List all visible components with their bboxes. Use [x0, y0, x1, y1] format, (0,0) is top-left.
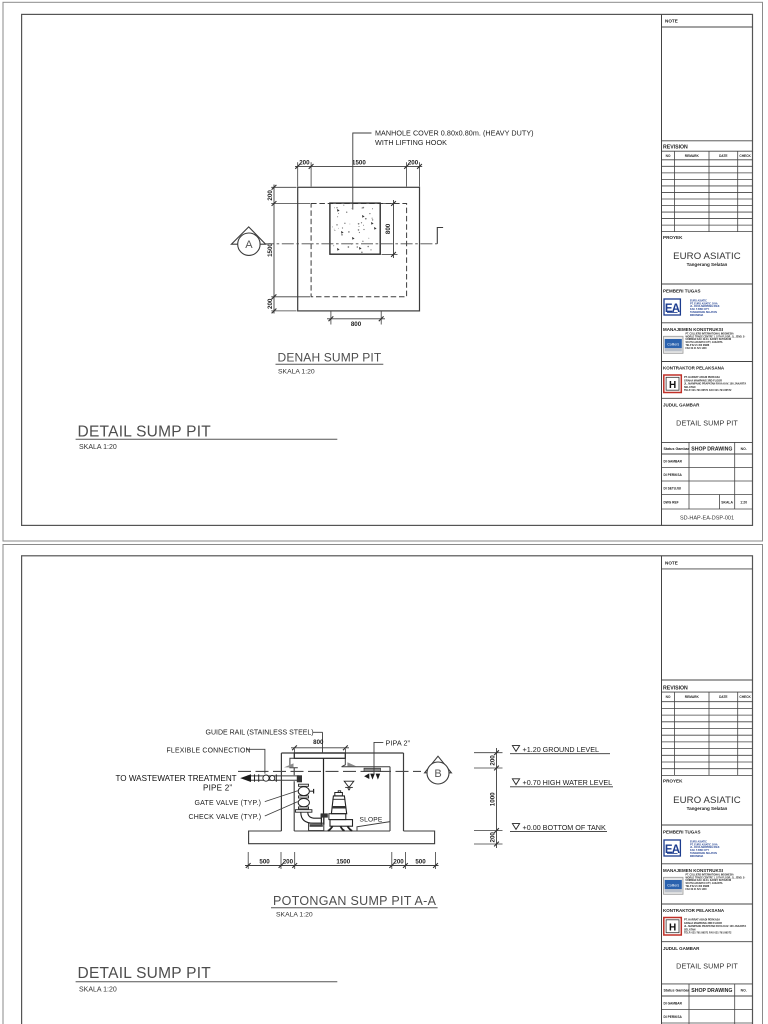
status gambar table [662, 995, 753, 997]
svg-text:SOUTH JAKARTA CITY, JAKARTA: SOUTH JAKARTA CITY, JAKARTA [686, 882, 723, 885]
svg-text:WORLD TRADE CENTRE 1, 10TH FLO: WORLD TRADE CENTRE 1, 10TH FLOOR, JL. JE… [686, 876, 746, 879]
800 dimension above cover (section) [291, 747, 349, 749]
guide rail [323, 758, 325, 816]
REVISION label [662, 691, 753, 693]
svg-text:EA: EA [665, 303, 680, 315]
left cover seat step [290, 758, 298, 768]
floor slope wedge [357, 822, 390, 831]
right vertical dimension extensions [474, 752, 503, 754]
manhole cover square [330, 203, 380, 254]
guide rail leader line [322, 732, 324, 753]
svg-text:PROYEK: PROYEK [663, 235, 683, 240]
svg-text:CHECK VALVE (TYP.): CHECK VALVE (TYP.) [189, 814, 262, 821]
svg-text:PEMBERI TUGAS: PEMBERI TUGAS [663, 830, 701, 835]
plan left dimension line [273, 185, 275, 314]
sheet 1 inner border [22, 14, 753, 525]
section marker A circle [238, 233, 260, 255]
svg-text:TELP. 021-791 86571 FAX 021-79: TELP. 021-791 86571 FAX 021-791 86572 [684, 932, 732, 935]
svg-text:REMARK: REMARK [685, 154, 700, 158]
MANAJEMEN KONSTRUKSI section [662, 903, 753, 905]
submersible pump cap [335, 793, 343, 796]
svg-text:H: H [669, 380, 676, 391]
svg-text:H: H [669, 922, 676, 933]
KONTRAKTOR PELAKSANA section [662, 397, 753, 399]
svg-text:PT. COLLIERS INTERNATIONAL IND: PT. COLLIERS INTERNATIONAL INDONESIA [686, 873, 734, 876]
manhole cover leader line [353, 133, 372, 210]
svg-text:REMARK: REMARK [685, 695, 700, 699]
right cover seat step [342, 758, 346, 766]
svg-text:GUIDE RAIL (STAINLESS STEEL): GUIDE RAIL (STAINLESS STEEL) [206, 730, 314, 737]
bottom of tank level mark [512, 824, 519, 830]
svg-text:NO: NO [666, 695, 671, 699]
section bottom dimension line [245, 865, 439, 867]
plan centerline [262, 243, 437, 245]
svg-text:A: A [245, 239, 253, 251]
KONTRAKTOR PELAKSANA section [662, 941, 753, 943]
REVISION label [662, 150, 753, 152]
right vertical dimension line [496, 748, 498, 848]
revision table header row [662, 159, 753, 161]
svg-text:B: B [434, 768, 441, 780]
svg-text:DETAIL SUMP PIT: DETAIL SUMP PIT [78, 965, 212, 982]
svg-text:INDONESIA: INDONESIA [690, 855, 704, 858]
right wall outer line [403, 753, 405, 831]
svg-text:1500: 1500 [336, 858, 350, 865]
gate valve leader [265, 791, 298, 802]
left seat wedge [284, 763, 294, 767]
check valve leader [265, 802, 298, 816]
plan inner tank dashed square [311, 204, 407, 297]
svg-text:TELP 62 21 300 36888: TELP 62 21 300 36888 [686, 886, 710, 888]
svg-text:KONTRAKTOR PELAKSANA: KONTRAKTOR PELAKSANA [663, 366, 725, 371]
svg-text:PIPE 2”: PIPE 2” [203, 784, 232, 793]
svg-text:FAX 62 21 521 1400: FAX 62 21 521 1400 [686, 347, 708, 350]
elbow flange bars [320, 814, 322, 824]
flexible coupling [263, 775, 269, 781]
svg-text:UDIRMAN KAV. 29-31, KARET, SET: UDIRMAN KAV. 29-31, KARET, SETIABUDI [686, 879, 732, 882]
revision table column lines [674, 151, 676, 231]
revision table rows [662, 707, 753, 709]
gate valve body [298, 787, 309, 796]
svg-text:DI GAMBAR: DI GAMBAR [664, 460, 683, 464]
svg-text:800: 800 [385, 223, 392, 234]
svg-text:+0.70 HIGH WATER LEVEL: +0.70 HIGH WATER LEVEL [523, 778, 613, 787]
svg-text:FAX 62 21 521 1400: FAX 62 21 521 1400 [686, 888, 708, 891]
JUDUL GAMBAR section [662, 983, 753, 985]
valve base plate [296, 810, 312, 813]
discharge elbow at wall [297, 775, 302, 782]
plan bottom 800 dimension [327, 318, 385, 320]
svg-text:SHOP DRAWING: SHOP DRAWING [691, 988, 732, 994]
svg-text:DI GAMBAR: DI GAMBAR [664, 1002, 683, 1006]
pump collar [329, 814, 346, 820]
MANAJEMEN KONSTRUKSI section [662, 361, 753, 363]
svg-text:EA: EA [665, 844, 680, 856]
svg-text:TELP 62 21 300 36888: TELP 62 21 300 36888 [686, 345, 710, 347]
svg-text:REVISION: REVISION [663, 144, 688, 150]
high water level mark [512, 779, 519, 785]
plan outer wall square [298, 187, 420, 311]
NOTE box bottom line [662, 140, 753, 142]
svg-text:DENAH SUMP PIT: DENAH SUMP PIT [278, 351, 382, 365]
tank interior floor line [294, 830, 390, 832]
title block frame [661, 14, 663, 525]
svg-text:MANAJEMEN KONSTRUKSI: MANAJEMEN KONSTRUKSI [663, 327, 723, 332]
svg-text:200: 200 [267, 190, 274, 201]
submersible pump knob [338, 791, 341, 793]
svg-text:1500: 1500 [352, 160, 366, 167]
section marker B circle [427, 762, 449, 784]
svg-text:SKALA 1:20: SKALA 1:20 [278, 369, 315, 376]
svg-text:MANHOLE COVER 0.80x0.80m. (HEA: MANHOLE COVER 0.80x0.80m. (HEAVY DUTY) [375, 128, 534, 137]
svg-text:+1.20 GROUND LEVEL: +1.20 GROUND LEVEL [523, 745, 600, 754]
gate valve handle H [310, 790, 314, 792]
svg-text:CHECK: CHECK [739, 154, 751, 158]
svg-text:UDIRMAN KAV. 29-31, KARET, SET: UDIRMAN KAV. 29-31, KARET, SETIABUDI [686, 338, 732, 341]
svg-text:SKALA 1:20: SKALA 1:20 [79, 986, 117, 993]
svg-text:1:20: 1:20 [740, 501, 747, 505]
NOTE box bottom line [662, 679, 753, 681]
right wall inner line [389, 767, 391, 831]
PEMBERI TUGAS section [662, 322, 753, 324]
svg-text:POTONGAN SUMP PIT A-A: POTONGAN SUMP PIT A-A [273, 894, 437, 908]
svg-text:200: 200 [299, 160, 310, 167]
svg-text:GATE VALVE (TYP.): GATE VALVE (TYP.) [195, 800, 262, 807]
svg-text:1000: 1000 [489, 792, 496, 806]
PIPA 2 leader [374, 742, 383, 774]
pump legs [328, 826, 333, 831]
svg-text:PEMBERI TUGAS: PEMBERI TUGAS [663, 289, 701, 294]
svg-text:TO WASTEWATER TREATMENT: TO WASTEWATER TREATMENT [116, 774, 237, 783]
svg-text:DI SETUJUI: DI SETUJUI [664, 487, 682, 491]
svg-text:PT. COLLIERS INTERNATIONAL IND: PT. COLLIERS INTERNATIONAL INDONESIA [686, 332, 734, 335]
svg-text:SKALA 1:20: SKALA 1:20 [276, 912, 313, 919]
svg-text:SLOPE: SLOPE [360, 816, 383, 823]
ground dashed line [238, 770, 421, 772]
svg-text:DETAIL SUMP PIT: DETAIL SUMP PIT [676, 418, 738, 427]
section marker A triangle [231, 227, 265, 244]
svg-text:Colliers: Colliers [667, 883, 679, 887]
svg-text:DI PERIKSA: DI PERIKSA [664, 1015, 683, 1019]
base slab [249, 831, 435, 844]
svg-text:TELP. 021-791 86571 FAX 021-79: TELP. 021-791 86571 FAX 021-791 86572 [684, 389, 732, 392]
svg-text:EURO ASIATIC: EURO ASIATIC [673, 795, 741, 806]
pump plinth [309, 823, 324, 830]
Hansae H logo [664, 918, 682, 936]
svg-text:PIPA 2”: PIPA 2” [386, 738, 411, 747]
submersible pump body [331, 796, 346, 814]
NOTE header box [662, 568, 753, 570]
svg-text:200: 200 [408, 160, 419, 167]
svg-text:1500: 1500 [267, 243, 274, 257]
plan right 800 dimension (cover height) [393, 200, 395, 258]
svg-text:200: 200 [393, 858, 404, 865]
pump volute [330, 820, 353, 827]
svg-text:CHECK: CHECK [739, 695, 751, 699]
svg-text:JUDUL GAMBAR: JUDUL GAMBAR [663, 946, 700, 951]
left wall inner line [293, 768, 295, 775]
svg-text:200: 200 [283, 858, 294, 865]
section bottom dimension extensions [247, 852, 249, 869]
tank top slab line [281, 752, 403, 754]
plan top dimension line [295, 165, 422, 167]
svg-text:REVISION: REVISION [663, 685, 688, 691]
svg-text:JUDUL GAMBAR: JUDUL GAMBAR [663, 403, 700, 408]
svg-text:MANAJEMEN KONSTRUKSI: MANAJEMEN KONSTRUKSI [663, 868, 723, 873]
svg-text:200: 200 [489, 832, 496, 843]
PROYEK section [662, 283, 753, 285]
svg-text:WITH LIFTING HOOK: WITH LIFTING HOOK [375, 138, 447, 147]
svg-text:PROYEK: PROYEK [663, 779, 683, 784]
left wall outer line [280, 753, 282, 831]
svg-text:DETAIL SUMP PIT: DETAIL SUMP PIT [676, 962, 738, 971]
arrow to wastewater treatment [240, 774, 251, 782]
NOTE header box [662, 26, 753, 28]
svg-text:WORLD TRADE CENTRE 1, 10TH FLO: WORLD TRADE CENTRE 1, 10TH FLOOR, JL. JE… [686, 335, 746, 338]
status table verticals [688, 442, 690, 509]
svg-text:NOTE: NOTE [665, 19, 678, 24]
valve stack flange 3 [299, 807, 309, 809]
pipe stub bracket at right of plan [437, 228, 443, 244]
status table verticals [688, 984, 690, 1024]
sheet 1 outer border [3, 2, 763, 541]
guide rail clamp [321, 813, 328, 817]
svg-text:NO.: NO. [741, 447, 747, 451]
svg-text:Colliers: Colliers [667, 342, 679, 346]
svg-text:DWG REF: DWG REF [664, 501, 679, 505]
EA logo [664, 299, 680, 315]
svg-text:SKALA: SKALA [721, 501, 733, 505]
title block frame [661, 556, 663, 1024]
discharge pipe through wall [248, 775, 300, 777]
revision table column lines [674, 692, 676, 775]
svg-text:Status Gambar: Status Gambar [664, 988, 690, 992]
ground level mark [512, 746, 519, 752]
svg-text:800: 800 [313, 739, 324, 746]
svg-text:KONTRAKTOR PELAKSANA: KONTRAKTOR PELAKSANA [663, 908, 725, 913]
top slab underside line [342, 766, 390, 768]
revision table rows [662, 165, 753, 167]
svg-text:200: 200 [489, 755, 496, 766]
right seat wedge [347, 762, 356, 766]
svg-text:NOTE: NOTE [665, 560, 678, 565]
svg-text:SKALA 1:20: SKALA 1:20 [79, 444, 117, 451]
svg-text:DETAIL SUMP PIT: DETAIL SUMP PIT [78, 424, 212, 441]
svg-text:500: 500 [415, 858, 426, 865]
Colliers logo [664, 336, 684, 353]
svg-text:NO.: NO. [741, 988, 747, 992]
svg-text:500: 500 [259, 858, 270, 865]
sheet 2 inner border [22, 556, 753, 1024]
svg-text:NO: NO [666, 154, 671, 158]
svg-text:Tangerang Selatan: Tangerang Selatan [687, 806, 728, 811]
Hansae H logo [664, 375, 682, 393]
check valve body [298, 799, 309, 807]
manhole cover stipple [332, 205, 373, 253]
svg-text:+0.00 BOTTOM OF TANK: +0.00 BOTTOM OF TANK [523, 823, 606, 832]
JUDUL GAMBAR section [662, 441, 753, 443]
status gambar table [662, 453, 753, 455]
valve stack flange 1 [299, 784, 309, 786]
svg-text:SOUTH JAKARTA CITY, JAKARTA: SOUTH JAKARTA CITY, JAKARTA [686, 341, 723, 344]
manhole cover plate (section) [294, 753, 345, 758]
svg-text:DATE: DATE [719, 695, 727, 699]
revision table header row [662, 701, 753, 703]
svg-text:SD-HAP-EA-DSP-001: SD-HAP-EA-DSP-001 [680, 515, 734, 521]
svg-text:Tangerang Selatan: Tangerang Selatan [687, 262, 728, 267]
EA logo [664, 840, 680, 856]
discharge elbow to pump [301, 812, 321, 823]
PEMBERI TUGAS section [662, 863, 753, 865]
svg-text:EURO ASIATIC: EURO ASIATIC [673, 251, 741, 262]
plan top dimension extension lines [297, 162, 299, 186]
svg-text:SHOP DRAWING: SHOP DRAWING [691, 446, 732, 452]
Colliers logo [664, 877, 684, 894]
flow arrows under sleeve [364, 773, 369, 779]
section marker B triangle [425, 756, 452, 773]
svg-text:DATE: DATE [719, 154, 727, 158]
water level symbol [344, 781, 354, 787]
PROYEK section [662, 824, 753, 826]
svg-text:DI PERIKSA: DI PERIKSA [664, 473, 683, 477]
pipe flanges outside wall [254, 774, 256, 781]
svg-text:800: 800 [351, 321, 362, 328]
sheet 2 outer border [3, 545, 763, 1024]
svg-text:200: 200 [267, 298, 274, 309]
flexible connection leader [246, 749, 265, 773]
svg-text:Status Gambar: Status Gambar [664, 447, 690, 451]
pipe sleeve at top right [364, 768, 381, 771]
valve stack flange 2 [299, 796, 309, 798]
svg-text:INDONESIA: INDONESIA [690, 314, 704, 317]
plan left dimension extension lines [271, 186, 296, 188]
svg-text:FLEXIBLE CONNECTION: FLEXIBLE CONNECTION [167, 747, 251, 754]
